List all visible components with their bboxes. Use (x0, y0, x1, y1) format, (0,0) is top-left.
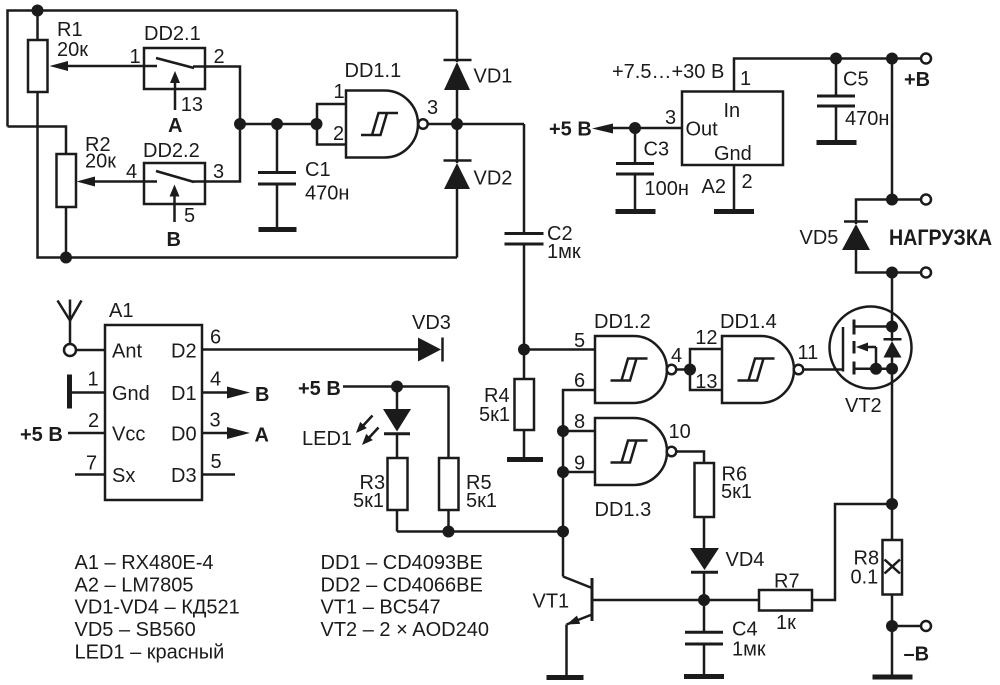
svg-text:+7.5…+30 В: +7.5…+30 В (612, 61, 724, 83)
switch DD2.2 (126, 140, 224, 251)
wire +B rail down (891, 59, 894, 200)
terminal -B (892, 621, 931, 666)
wire VT2 source down (891, 369, 894, 540)
wire A1 D3 stub (202, 451, 235, 475)
diode VD2 (444, 124, 513, 258)
node pin8 junction (557, 425, 569, 437)
resistor R7 (759, 571, 812, 635)
svg-text:20к: 20к (57, 39, 88, 61)
resistor R1 (28, 11, 157, 93)
svg-text:+В: +В (904, 69, 930, 91)
svg-text:6: 6 (574, 370, 585, 392)
diode VT2 body (884, 327, 902, 369)
wire DD1.3 output to R6 (676, 452, 704, 464)
antenna WA1 (58, 300, 82, 357)
svg-text:4: 4 (126, 161, 137, 183)
svg-text:DD1 – CD4093BE: DD1 – CD4093BE (321, 552, 483, 574)
node C3 tap (629, 122, 641, 134)
svg-text:1: 1 (130, 46, 141, 68)
svg-text:1: 1 (334, 81, 345, 103)
node LED tap (391, 381, 403, 393)
ground R4 (507, 457, 543, 462)
svg-text:4: 4 (671, 345, 682, 367)
svg-text:Out: Out (686, 119, 719, 141)
svg-text:VD1-VD4 – КД521: VD1-VD4 – КД521 (75, 597, 240, 619)
svg-text:VT2: VT2 (845, 395, 882, 417)
diode VD3 (412, 312, 451, 362)
svg-text:В: В (167, 229, 181, 251)
svg-text:1: 1 (740, 68, 751, 90)
wire to DD1.2 pin5 (524, 348, 595, 351)
svg-text:5к1: 5к1 (721, 481, 752, 503)
node C1 tap (271, 118, 283, 130)
capacitor C4 (685, 600, 766, 674)
svg-text:+5 В: +5 В (298, 378, 341, 400)
svg-text:6: 6 (210, 327, 221, 349)
wire VT1 base (592, 599, 759, 602)
svg-text:C1: C1 (305, 159, 331, 181)
wire A1 D2 pin6 (202, 327, 418, 350)
node DD1.1 input bracket (311, 118, 323, 130)
svg-text:5: 5 (211, 451, 222, 473)
svg-text:VT1: VT1 (533, 591, 570, 613)
svg-text:R1: R1 (57, 19, 83, 41)
svg-text:Vcc: Vcc (112, 424, 145, 446)
resistor R6 (695, 463, 753, 548)
wire R7 to R8 top (812, 504, 892, 600)
ground C5 (817, 140, 857, 145)
svg-text:Gnd: Gnd (112, 383, 150, 405)
node VT2 drain (886, 321, 898, 333)
receiver A1 (105, 300, 202, 500)
svg-text:DD1.2: DD1.2 (594, 311, 651, 333)
node R1 top junction (32, 5, 44, 17)
svg-text:VT1 – BC547: VT1 – BC547 (321, 597, 441, 619)
svg-text:LED1 – красный: LED1 – красный (75, 641, 225, 663)
svg-text:13: 13 (181, 94, 203, 116)
svg-text:5к1: 5к1 (353, 490, 384, 512)
svg-text:D2: D2 (171, 341, 197, 363)
regulator A2 (665, 68, 783, 198)
svg-text:4: 4 (210, 369, 221, 391)
resistor R5 (439, 387, 497, 532)
ground C3 (616, 209, 656, 214)
svg-text:3: 3 (665, 107, 676, 129)
svg-text:Gnd: Gnd (714, 143, 752, 165)
ground VT1 emitter (547, 675, 584, 680)
node +B branch (886, 53, 898, 65)
svg-text:В: В (255, 384, 269, 406)
svg-text:DD1.4: DD1.4 (720, 311, 777, 333)
svg-text:VT2 – 2 × AOD240: VT2 – 2 × AOD240 (321, 619, 489, 641)
capacitor C5 (817, 59, 889, 141)
svg-text:Ant: Ant (112, 341, 142, 363)
wire A2 In to +B rail (734, 59, 921, 92)
svg-text:C5: C5 (843, 69, 869, 91)
capacitor C1 (258, 124, 349, 227)
wire A2 Out +5V (549, 119, 682, 141)
node R5 bottom (443, 526, 455, 538)
wire DD1.3 pin8 (563, 430, 595, 433)
svg-text:D3: D3 (171, 465, 197, 487)
svg-text:DD1.3: DD1.3 (595, 499, 652, 521)
svg-text:1: 1 (88, 369, 99, 391)
wire +5V LED rail (298, 378, 449, 400)
node R2 bottom junction (60, 252, 72, 264)
svg-text:Sx: Sx (112, 465, 135, 487)
svg-text:0.1: 0.1 (851, 567, 879, 589)
svg-text:DD1.1: DD1.1 (345, 60, 402, 82)
node VT1 base junction (698, 594, 710, 606)
wire DD2.1 pin2 to DD2.2 pin3 (193, 67, 240, 182)
wire DD1.3 pin9 (563, 471, 595, 474)
node VD3-C2-R4 junction (518, 344, 530, 356)
svg-text:DD2.2: DD2.2 (143, 140, 200, 162)
terminal load upper (892, 195, 931, 205)
wire left frame to R2 top (8, 127, 67, 155)
diode VD4 (690, 548, 764, 600)
label input voltage (612, 61, 724, 83)
wire DD1.2 pin6 (563, 390, 595, 577)
wire antenna to A1 (76, 349, 105, 352)
svg-text:VD1: VD1 (474, 66, 513, 88)
svg-text:12: 12 (695, 327, 717, 349)
svg-text:A1: A1 (109, 300, 133, 322)
capacitor C3 (616, 128, 689, 210)
parts list column 2 (321, 552, 489, 641)
svg-text:VD3: VD3 (412, 312, 451, 334)
svg-text:–В: –В (904, 644, 930, 666)
svg-text:VD5 – SB560: VD5 – SB560 (75, 619, 196, 641)
node switch output junction (234, 118, 246, 130)
wire DD1.4 input bracket (690, 327, 722, 393)
wire DD1.1 input bracket (317, 104, 346, 145)
wire DD1.4 output to VT2 gate (803, 368, 843, 371)
node gate 4 junction (684, 364, 696, 376)
terminal load lower (892, 268, 931, 278)
svg-text:1к: 1к (776, 612, 796, 634)
ground A1 pin1 bar (70, 369, 106, 409)
node R8 top junction (886, 498, 898, 510)
label НАГРУЗКА (889, 225, 992, 250)
parts list column 1 (75, 552, 240, 663)
resistor R2 (57, 134, 158, 258)
op-amp U4: NAND gate DD1.3 (574, 411, 691, 521)
capacitor C2 (505, 124, 581, 350)
svg-text:А: А (255, 425, 269, 447)
svg-text:1мк: 1мк (732, 639, 766, 661)
wire load to VT2 drain (891, 273, 894, 327)
node B output arrow (202, 369, 269, 407)
ground -B (873, 626, 913, 677)
wire R3-R5 bottom rail (397, 530, 563, 533)
switch DD2.1 (130, 23, 225, 137)
node VT2 bulk (870, 363, 882, 375)
svg-text:DD2 – CD4066BE: DD2 – CD4066BE (321, 574, 483, 596)
svg-text:3: 3 (213, 161, 224, 183)
diode VD5 (800, 200, 893, 273)
svg-text:D0: D0 (171, 424, 197, 446)
svg-text:A1 – RX480E-4: A1 – RX480E-4 (75, 552, 214, 574)
wire top rail (8, 11, 458, 127)
wire bottom rail (38, 92, 458, 258)
transistor VT2 MOSFET (830, 307, 912, 418)
node VD1-VD2 junction (451, 118, 463, 130)
op-amp U3: NAND gate DD1.4 (720, 311, 818, 403)
ground C4 (684, 674, 724, 679)
wire DD1.2 output to DD1.4 (671, 345, 690, 370)
resistor R4 (479, 350, 534, 458)
svg-text:2: 2 (88, 410, 99, 432)
svg-text:+5 В: +5 В (549, 119, 592, 141)
diode VD1 (444, 11, 513, 125)
svg-text:13: 13 (695, 371, 717, 393)
ground C1 (259, 227, 297, 232)
svg-text:А: А (168, 115, 182, 137)
svg-text:C3: C3 (644, 139, 670, 161)
svg-text:VD4: VD4 (726, 549, 765, 571)
svg-text:470н: 470н (305, 183, 349, 205)
svg-text:D1: D1 (171, 383, 197, 405)
svg-text:5: 5 (184, 205, 195, 227)
op-amp U2: NAND gate DD1.2 (574, 311, 676, 403)
wire switches to gate input (240, 123, 317, 126)
svg-text:470н: 470н (845, 108, 889, 130)
node VT1 collector junction (557, 526, 569, 538)
svg-text:VD2: VD2 (474, 168, 513, 190)
svg-text:5к1: 5к1 (479, 404, 510, 426)
node A output arrow (202, 410, 269, 447)
svg-text:A2 – LM7805: A2 – LM7805 (75, 574, 194, 596)
svg-text:11: 11 (798, 342, 819, 364)
terminal +B (904, 54, 931, 92)
LED LED1 (302, 387, 411, 459)
transistor VT1 (533, 577, 593, 676)
svg-text:1мк: 1мк (547, 241, 581, 263)
svg-text:5: 5 (574, 330, 585, 352)
wire DD1.1 output (428, 123, 524, 126)
svg-text:НАГРУЗКА: НАГРУЗКА (889, 225, 992, 250)
svg-text:DD2.1: DD2.1 (144, 23, 201, 45)
node load lower (886, 267, 898, 279)
op-amp U1: NAND gate DD1.1 (333, 60, 438, 158)
svg-text:20к: 20к (85, 151, 116, 173)
svg-text:A2: A2 (702, 176, 726, 198)
svg-text:2: 2 (742, 171, 753, 193)
wire A1 Vcc +5V (20, 410, 105, 446)
svg-text:2: 2 (214, 46, 225, 68)
node load upper (886, 194, 898, 206)
svg-text:3: 3 (427, 97, 438, 119)
wire A1 Sx stub (75, 453, 105, 475)
resistor R8 fusible (851, 540, 903, 626)
resistor R3 (353, 458, 408, 532)
svg-text:LED1: LED1 (302, 428, 352, 450)
svg-text:In: In (724, 100, 741, 122)
svg-text:2: 2 (333, 123, 344, 145)
node VT2 source (886, 363, 898, 375)
svg-text:5к1: 5к1 (466, 490, 497, 512)
ground A2 (714, 209, 754, 214)
svg-text:3: 3 (210, 410, 221, 432)
node C5 tap (830, 53, 842, 65)
svg-text:VD5: VD5 (800, 227, 839, 249)
svg-text:7: 7 (86, 453, 97, 475)
svg-text:R7: R7 (774, 571, 800, 593)
wire A2 Gnd (733, 165, 736, 210)
svg-text:8: 8 (574, 411, 585, 433)
svg-text:+5 В: +5 В (20, 424, 63, 446)
node pin9 junction (557, 466, 569, 478)
svg-text:100н: 100н (645, 178, 689, 200)
node -B junction (886, 620, 898, 632)
svg-text:10: 10 (669, 421, 691, 443)
svg-text:C4: C4 (732, 619, 758, 641)
